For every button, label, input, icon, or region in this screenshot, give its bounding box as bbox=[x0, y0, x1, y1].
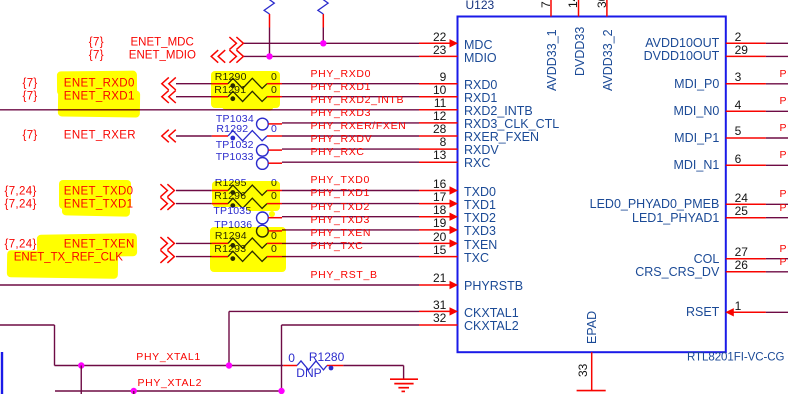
value 0 of R1293 bbox=[271, 244, 277, 255]
value 0 of R1296 bbox=[271, 191, 277, 202]
pin 10 stub bbox=[419, 96, 458, 98]
top pin 30 stub bbox=[606, 0, 608, 17]
pin 13 stub bbox=[419, 161, 458, 163]
label {7} bbox=[89, 38, 104, 50]
pin name TXD2 bbox=[464, 212, 496, 225]
pin 26 stub bbox=[726, 271, 766, 273]
wire net at pin 25 to edge bbox=[766, 217, 788, 219]
pin number 28 bbox=[433, 123, 446, 135]
wire R1294 to chip bbox=[282, 242, 419, 244]
resistor R1280 body bbox=[297, 361, 327, 370]
R1290 right pin bbox=[267, 83, 282, 85]
R1280 right pin bbox=[327, 365, 343, 367]
junction CKXTAL1/PHY_XTAL1 bbox=[226, 362, 232, 368]
R1293 right pin bbox=[267, 256, 282, 258]
wire into R1296 bbox=[176, 203, 212, 205]
highlight R1290/R1291 lip bbox=[222, 103, 273, 110]
port ENET_RXD0 chevron bbox=[162, 77, 176, 90]
pin name CRS_CRS_DV bbox=[635, 266, 719, 279]
TP1035 pin bbox=[268, 217, 282, 219]
pin name TXC bbox=[464, 252, 489, 265]
R1293 left pin bbox=[212, 256, 228, 258]
wire into R1290 bbox=[176, 83, 212, 85]
wire into R1292 bbox=[176, 135, 212, 137]
testpoint TP1032 circle bbox=[257, 144, 269, 156]
R1294 right pin bbox=[267, 242, 282, 244]
R1292 right pin bbox=[267, 135, 282, 137]
pin 21 stub with input arrow bbox=[419, 284, 450, 286]
port ENET_TXD1 chevron bbox=[160, 197, 174, 210]
wire R1290 to chip bbox=[282, 83, 419, 85]
refdes R1292 bbox=[216, 124, 248, 135]
R1290 pin dot bbox=[230, 83, 235, 88]
pin name AVDD33_1 (rotated) bbox=[546, 29, 559, 91]
pin 24 stub bbox=[726, 203, 766, 205]
wire CKXTAL2 vertical drop bbox=[281, 325, 283, 391]
pin name MDI_P1 bbox=[674, 132, 719, 145]
value 1.5K (clipped) bbox=[283, 0, 305, 2]
refdes TP1035 bbox=[213, 205, 251, 216]
pin name MDIO bbox=[464, 51, 497, 64]
pin name RSET bbox=[686, 306, 719, 319]
value 0 of R1291 bbox=[271, 84, 277, 95]
R1293 pin dot bbox=[230, 256, 235, 261]
junction on MDIO bbox=[266, 53, 272, 59]
net label PHY_TXD1 bbox=[311, 188, 370, 199]
refdes U123 bbox=[466, 0, 495, 11]
pin name AVDD33_2 (rotated) bbox=[602, 29, 615, 91]
wire net at pin 5 to edge bbox=[766, 137, 788, 139]
pin number 27 bbox=[735, 246, 748, 258]
R1280 left pin bbox=[283, 365, 297, 367]
refdes R1291 bbox=[214, 84, 246, 95]
pin 31 stub with input arrow bbox=[419, 310, 450, 312]
resistor R1291 body bbox=[228, 91, 267, 101]
pin name COL bbox=[694, 252, 720, 265]
net label PHY_RST_B bbox=[311, 270, 378, 281]
pin 11 stub bbox=[419, 109, 458, 111]
label ENET_TXD1 bbox=[64, 199, 134, 211]
wire branch down bbox=[133, 391, 135, 394]
value 0 of R1295 bbox=[271, 178, 277, 189]
refdes R1290 bbox=[215, 71, 247, 82]
pin 12 stub bbox=[419, 122, 458, 124]
EPAD pin 33 stub bbox=[591, 352, 593, 390]
highlight R1295/R1296 right bbox=[246, 181, 280, 211]
R1296 pin dot bbox=[230, 203, 235, 208]
pin number 15 bbox=[433, 244, 446, 256]
junction on MDC bbox=[320, 40, 326, 46]
pin 18 stub with input arrow bbox=[419, 216, 450, 218]
wire ENET_MDIO to pin 23 bbox=[244, 55, 420, 57]
value 0 of R1280 bbox=[288, 352, 295, 364]
TP1033 pin bbox=[268, 162, 282, 164]
pin 17 stub with input arrow bbox=[419, 203, 450, 205]
wire from left edge bbox=[0, 324, 55, 326]
pin 19 stub with input arrow bbox=[419, 229, 450, 231]
label {7} bbox=[23, 130, 38, 142]
pin 9 stub bbox=[419, 83, 458, 85]
net label PHY_TXD2 bbox=[311, 201, 370, 212]
wire TP1035 to chip bbox=[282, 216, 419, 218]
port ENET_MDIO bidir chevron right part bbox=[229, 50, 243, 63]
pin number 30 (rotated, clipped) bbox=[596, 0, 608, 8]
net label PHY_XTAL1 bbox=[136, 352, 201, 363]
port ENET_RXER chevron bbox=[162, 130, 176, 143]
net label (clipped) at pin 6 bbox=[780, 150, 788, 161]
wire R1292 to chip bbox=[282, 135, 419, 137]
pin 8 stub bbox=[419, 148, 458, 150]
value 1K (clipped) bbox=[338, 0, 351, 1]
port ENET_TXD0 chevron bbox=[160, 184, 174, 197]
wire into R1291 bbox=[176, 96, 212, 98]
refdes TP1034 bbox=[216, 113, 254, 124]
pin name RXD3_CLK_CTL bbox=[464, 118, 559, 131]
pin name TXEN bbox=[464, 238, 497, 251]
pin number 6 bbox=[735, 153, 742, 165]
pin number 11 bbox=[434, 97, 446, 109]
highlight R1294/R1293 bbox=[210, 227, 286, 272]
refdes TP1032 bbox=[216, 139, 254, 150]
top pin 7 stub bbox=[550, 0, 552, 17]
pin name RXC bbox=[464, 157, 490, 170]
pin number 14 (rotated, clipped) bbox=[567, 0, 579, 8]
label {7} bbox=[23, 92, 38, 104]
pin number 8 bbox=[440, 136, 447, 148]
junction CKXTAL2/PHY_XTAL2 bbox=[278, 388, 284, 394]
TP1034 pin bbox=[268, 123, 282, 125]
R1295 left pin bbox=[212, 190, 228, 192]
wire ENET_MDC to pin 22 bbox=[244, 42, 420, 44]
pin number 19 bbox=[433, 217, 446, 229]
pin number 31 bbox=[433, 299, 446, 311]
net label (clipped) at pin 24 bbox=[780, 189, 788, 200]
pin 2 stub bbox=[726, 42, 766, 44]
pin number 2 bbox=[735, 31, 742, 43]
testpoint TP1035 circle bbox=[257, 212, 269, 224]
refdes R1280 bbox=[309, 351, 344, 363]
pullup resistor 1K vertical wire bbox=[322, 28, 324, 44]
pin number 10 bbox=[433, 84, 446, 96]
TP1036 pin bbox=[268, 230, 282, 232]
testpoint TP1034 circle bbox=[257, 118, 269, 130]
wire TP1033 to chip bbox=[282, 161, 419, 163]
wire net at pin 27 to edge bbox=[766, 258, 788, 260]
pin number 3 bbox=[735, 71, 742, 83]
pin number 9 bbox=[440, 71, 447, 83]
pin 16 stub with input arrow bbox=[419, 190, 450, 192]
highlight R1290/R1291 bbox=[211, 71, 281, 108]
pin 32 stub bbox=[419, 324, 458, 326]
resistor R1294 body bbox=[228, 238, 267, 248]
testpoint TP1033 circle bbox=[257, 158, 269, 170]
highlight ENET_TXD0/TXD1 bbox=[59, 180, 131, 209]
label ENET_RXD1 bbox=[64, 92, 135, 104]
pin number 26 bbox=[735, 259, 748, 271]
pin number 32 bbox=[433, 312, 446, 324]
resistor R1290 body bbox=[228, 78, 267, 88]
pin name DVDD33 (rotated) bbox=[573, 26, 586, 75]
ground symbol bbox=[390, 379, 418, 391]
pin 4 stub bbox=[726, 110, 766, 112]
refdes R1293 bbox=[214, 244, 246, 255]
net label PHY_RXDV bbox=[311, 134, 373, 145]
R1295 pin dot bbox=[230, 190, 235, 195]
R1295 right pin bbox=[267, 190, 282, 192]
pullup resistor 1.5K vertical wire bbox=[269, 28, 271, 57]
refdes R1294 bbox=[215, 231, 247, 242]
net label PHY_RXD0 bbox=[311, 68, 372, 79]
pin name MDI_N1 bbox=[673, 159, 719, 172]
resistor R1293 body bbox=[228, 251, 267, 261]
value 0 of R1290 bbox=[271, 71, 277, 82]
crystal component edge (clipped) bbox=[1, 352, 3, 394]
label {7,24} bbox=[5, 186, 37, 198]
wire R1293 to chip bbox=[282, 256, 419, 258]
wire R1291 to chip bbox=[282, 96, 419, 98]
R1292 left pin bbox=[212, 135, 228, 137]
pin number 29 bbox=[735, 44, 748, 56]
pin number 22 bbox=[433, 31, 446, 43]
pin name LED0_PHYAD0_PMEB bbox=[590, 198, 720, 211]
op-amp/IC U123 RTL8201FI-VC-CG body bbox=[458, 17, 726, 353]
pin number 12 bbox=[433, 110, 446, 122]
wire into R1295 bbox=[176, 190, 212, 192]
port ENET_MDIO bidir chevron left part bbox=[211, 50, 225, 63]
port ENET_RXD1 chevron bbox=[162, 90, 176, 103]
pin number 23 bbox=[433, 44, 446, 56]
pin name TXD0 bbox=[464, 185, 496, 198]
pin name RXER_FXEN bbox=[464, 131, 539, 144]
pin 15 stub bbox=[419, 256, 458, 258]
R1280 pin dot bbox=[329, 366, 334, 371]
label ENET_RXER bbox=[64, 130, 136, 142]
R1291 right pin bbox=[267, 96, 282, 98]
pin number 13 bbox=[433, 149, 446, 161]
net label (clipped) at pin 3 bbox=[780, 68, 788, 79]
pin 25 stub bbox=[726, 217, 766, 219]
wire ground stem bbox=[403, 366, 405, 380]
highlight R1295/R1296 patch bbox=[269, 211, 275, 217]
R1290 left pin bbox=[212, 83, 228, 85]
pin name RXD1 bbox=[464, 92, 497, 105]
net label PHY_RXD1 bbox=[311, 81, 372, 92]
wire net at pin 24 to edge bbox=[766, 203, 788, 205]
pin 1 RSET stub with left arrow bbox=[725, 308, 734, 316]
refdes R1296 bbox=[214, 191, 246, 202]
refdes R1295 bbox=[215, 178, 247, 189]
wire net at pin 6 to edge bbox=[766, 164, 788, 166]
pin name DVDD10OUT bbox=[644, 50, 720, 63]
wire CKXTAL1 horizontal bbox=[229, 310, 419, 312]
pin name CKXTAL2 bbox=[464, 320, 519, 333]
R1296 right pin bbox=[267, 203, 282, 205]
port ENET_MDC output chevron bbox=[229, 37, 243, 50]
testpoint TP1036 circle bbox=[257, 225, 269, 237]
net label PHY_TXC bbox=[311, 241, 364, 252]
pin number 20 bbox=[433, 231, 446, 243]
port ENET_TXEN chevron bbox=[160, 237, 174, 250]
pin 28 stub bbox=[419, 135, 458, 137]
R1291 left pin bbox=[212, 96, 228, 98]
wire branch down bbox=[80, 366, 82, 394]
pin number 18 bbox=[433, 204, 446, 216]
pin name LED1_PHYAD1 bbox=[632, 211, 719, 224]
junction on PHY_XTAL1 bbox=[78, 362, 84, 368]
refdes TP1036 bbox=[214, 220, 252, 231]
label ENET_MDIO bbox=[129, 51, 196, 63]
pin number 24 bbox=[735, 192, 748, 204]
junction on PHY_XTAL2 bbox=[131, 388, 137, 394]
wire corner down to PHY_XTAL1 bbox=[54, 325, 56, 366]
net label (clipped) at pin 4 bbox=[780, 96, 788, 107]
wire PHY_XTAL2 bbox=[55, 390, 282, 392]
pin 3 stub bbox=[726, 83, 766, 85]
pin number 1 bbox=[735, 300, 742, 312]
pin name PHYRSTB bbox=[464, 280, 523, 293]
label ENET_RXD0 bbox=[64, 79, 135, 91]
wire net at pin 1 to edge bbox=[766, 311, 788, 313]
wire R1296 to chip bbox=[282, 203, 419, 205]
pin number 33 (rotated) bbox=[577, 364, 589, 377]
wire PHY_XTAL1 bbox=[55, 365, 284, 367]
net label (clipped) at pin 26 bbox=[780, 256, 788, 267]
pin name TXD3 bbox=[464, 225, 496, 238]
wire net at pin 3 to edge bbox=[766, 83, 788, 85]
refdes TP1033 bbox=[216, 151, 254, 162]
label ENET_TX_REF_CLK bbox=[14, 252, 123, 264]
pin name RXD2_INTB bbox=[464, 105, 533, 118]
label {7,24} bbox=[5, 199, 37, 211]
wire TP1036 to chip bbox=[282, 229, 419, 231]
label ENET_TXD0 bbox=[64, 186, 134, 198]
wire net at pin 26 to edge bbox=[766, 271, 788, 273]
pin name CKXTAL1 bbox=[464, 306, 519, 319]
top pin 14 stub bbox=[578, 0, 580, 17]
pin 5 stub bbox=[726, 137, 766, 139]
net label PHY_RXD2_INTB bbox=[311, 94, 405, 105]
TP1032 pin bbox=[268, 149, 282, 151]
resistor R1292 body bbox=[228, 131, 267, 141]
wire CKXTAL1 vertical drop bbox=[228, 311, 230, 365]
port ENET_TX_REF_CLK chevron bbox=[160, 250, 174, 263]
wire net at pin 4 to edge bbox=[766, 110, 788, 112]
highlight ENET_TX_REF_CLK bbox=[7, 250, 118, 279]
pin number 25 bbox=[735, 205, 748, 217]
pin 27 stub bbox=[726, 258, 766, 260]
label {7} bbox=[89, 51, 104, 63]
net label (clipped) at pin 27 bbox=[780, 243, 788, 254]
wire into R1294 bbox=[176, 242, 212, 244]
net label (clipped) at pin 25 bbox=[780, 202, 788, 213]
resistor R1295 body bbox=[228, 185, 267, 195]
pin name MDI_N0 bbox=[673, 105, 719, 118]
pin number 7 (rotated, clipped) bbox=[540, 1, 552, 8]
pin 29 stub bbox=[726, 55, 766, 57]
wire R1295 to chip bbox=[282, 190, 419, 192]
highlight ENET_RXD0/RXD1 bbox=[57, 70, 137, 95]
net label PHY_RXD3 bbox=[311, 107, 372, 118]
net label PHY_RXC bbox=[311, 147, 365, 158]
R1294 pin dot bbox=[230, 243, 235, 248]
pin 20 stub with input arrow bbox=[419, 242, 450, 244]
R1291 pin dot bbox=[230, 96, 235, 101]
pin 23 stub bbox=[419, 55, 458, 57]
wire net at pin 2 to edge bbox=[766, 42, 788, 44]
DNP marking bbox=[296, 367, 321, 379]
wire CKXTAL2 horizontal bbox=[282, 324, 420, 326]
pin number 4 bbox=[735, 99, 742, 111]
wire PHY_RST_B full width bbox=[0, 284, 419, 286]
net label (clipped) at pin 5 bbox=[780, 123, 788, 134]
wire into R1293 bbox=[176, 256, 212, 258]
pin name EPAD (rotated) bbox=[586, 310, 599, 343]
label ENET_MDC bbox=[131, 38, 194, 50]
pin name TXD1 bbox=[464, 199, 496, 212]
wire R1280 to ground bbox=[343, 365, 403, 367]
value RTL8201FI-VC-CG bbox=[687, 352, 784, 364]
pin number 16 bbox=[433, 178, 446, 190]
pin number 17 bbox=[433, 191, 446, 203]
resistor 1.5K body (clipped) bbox=[264, 0, 274, 14]
pin number 5 bbox=[735, 125, 742, 137]
value 0 of R1294 bbox=[271, 231, 277, 242]
net label PHY_TXEN bbox=[311, 228, 372, 239]
wire PHY_RXD2_INTB full width bbox=[0, 109, 419, 111]
label {7,24} bbox=[5, 240, 37, 252]
highlight ENET_TXD0/TXD1 lower bbox=[62, 204, 130, 216]
net label PHY_TXD3 bbox=[311, 214, 370, 225]
pin name MDC bbox=[464, 38, 492, 51]
wire TP1032 to chip bbox=[282, 148, 419, 150]
R1296 left pin bbox=[212, 203, 228, 205]
pin name RXDV bbox=[464, 144, 499, 157]
wire TP1034 to chip bbox=[282, 122, 419, 124]
pin name MDI_P0 bbox=[674, 78, 719, 91]
highlight ENET_RXD0/RXD1 lower bbox=[57, 89, 139, 117]
wire net at pin 29 to edge bbox=[766, 55, 788, 57]
resistor R1296 body bbox=[228, 198, 267, 208]
label {7} bbox=[23, 79, 38, 91]
pin number 21 bbox=[433, 272, 446, 284]
highlight R1295/R1296 bbox=[212, 181, 280, 207]
pin 6 stub bbox=[726, 164, 766, 166]
net label PHY_XTAL2 bbox=[138, 377, 203, 388]
resistor 1K body (clipped) bbox=[318, 0, 328, 14]
net label PHY_RXER/FXEN bbox=[311, 121, 407, 132]
label ENET_TXEN bbox=[64, 240, 135, 252]
R1294 left pin bbox=[212, 242, 228, 244]
value 0 of R1292 bbox=[271, 124, 277, 135]
pin 22 stub with input arrow bbox=[419, 42, 450, 44]
highlight ENET_TXEN bbox=[37, 233, 137, 258]
net label PHY_TXD0 bbox=[311, 175, 370, 186]
pin name RXD0 bbox=[464, 79, 497, 92]
pin name AVDD10OUT bbox=[645, 37, 719, 50]
R1292 pin dot bbox=[230, 136, 235, 141]
